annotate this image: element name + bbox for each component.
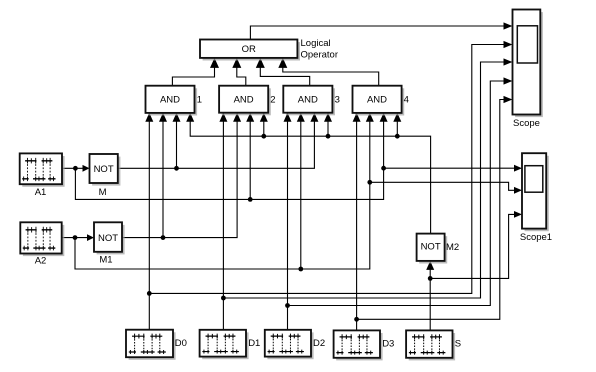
wire AND4 output to OR input 4 <box>283 67 379 86</box>
wire M2 branch to AND3 input 4 <box>327 122 329 137</box>
source block D0 pulse generator <box>126 330 176 360</box>
svg-text:NOT: NOT <box>98 233 118 244</box>
wire D0 to AND1 input 1 <box>148 122 150 330</box>
wire A1 branch to Scope1 input 1 <box>384 167 514 169</box>
wire D1 to AND2 input 1 <box>222 122 224 330</box>
svg-text:M: M <box>99 187 107 198</box>
svg-text:D2: D2 <box>313 338 325 349</box>
svg-text:D1: D1 <box>248 338 260 349</box>
wire AND3 output to OR input 3 <box>260 67 309 86</box>
node D3 branch junction <box>354 317 359 322</box>
source block D2 pulse generator <box>265 330 314 359</box>
wire M2 branch to AND4 input 4 <box>396 122 398 137</box>
sink Scope <box>513 10 543 118</box>
wire D2 to AND3 input 1 <box>287 122 289 330</box>
node M1 to AND1 junction <box>161 235 166 240</box>
svg-text:4: 4 <box>404 95 409 106</box>
node A2 riser junction <box>367 180 372 185</box>
node A1 riser junction <box>381 166 386 171</box>
svg-text:3: 3 <box>335 95 340 106</box>
node D1 branch junction <box>221 296 226 301</box>
svg-text:D0: D0 <box>175 338 187 349</box>
wire M1 branch to AND1 input 2 <box>162 122 164 238</box>
svg-text:AND: AND <box>234 95 254 106</box>
svg-text:M1: M1 <box>99 254 112 265</box>
wire D2 branch to Scope input 4 <box>288 81 505 306</box>
node S branch junction <box>428 276 433 281</box>
svg-text:NOT: NOT <box>94 164 114 175</box>
gate AND3 <box>283 86 335 116</box>
op NOT gate M <box>90 154 121 186</box>
op NOT gate M1 <box>94 222 125 254</box>
svg-text:S: S <box>455 339 461 350</box>
node D2 branch junction <box>285 303 290 308</box>
node A2 branch junction <box>73 235 78 240</box>
node M2 to AND4 junction <box>395 134 400 139</box>
wire NOT M output to AND3 input 3 <box>118 122 315 169</box>
wire D3 branch to Scope input 5 <box>357 100 505 320</box>
node A1 branch junction <box>73 166 78 171</box>
source block A2 pulse generator <box>20 222 64 256</box>
svg-text:A1: A1 <box>35 187 47 198</box>
svg-text:D3: D3 <box>382 339 394 350</box>
wire M branch to AND1 input 3 <box>176 122 178 169</box>
svg-text:A2: A2 <box>35 255 47 266</box>
gate AND1 <box>146 86 198 116</box>
wire S branch to Scope1 input 3 <box>430 214 514 278</box>
wire A2 branch to Scope1 input 2 <box>370 182 514 190</box>
wire A2 to NOT M1 input <box>62 237 88 239</box>
svg-text:M2: M2 <box>446 242 459 253</box>
svg-text:1: 1 <box>197 95 202 106</box>
svg-text:2: 2 <box>270 95 275 106</box>
sink Scope1 <box>522 153 549 231</box>
svg-text:AND: AND <box>160 95 180 106</box>
gate AND4 <box>353 86 405 116</box>
svg-text:OR: OR <box>242 44 256 55</box>
wire A2 branch to AND4 input 2 <box>75 122 370 270</box>
svg-text:Operator: Operator <box>301 49 339 60</box>
wire S to NOT M2 input <box>429 270 431 331</box>
wire A1 to NOT M input <box>62 167 83 169</box>
source block A1 pulse generator <box>20 153 65 186</box>
op OR gate U-OR Logical Operator <box>200 40 300 61</box>
wire A2 branch to AND3 input 2 <box>300 122 302 270</box>
svg-text:AND: AND <box>298 95 318 106</box>
node M to AND1 junction <box>174 166 179 171</box>
op NOT gate M2 <box>417 234 448 264</box>
source block D1 pulse generator <box>200 330 249 359</box>
wire A1 branch to AND4 input 3 <box>75 122 383 200</box>
node M2 to AND3 junction <box>326 134 331 139</box>
wire M2 branch to AND2 input 4 <box>263 122 265 137</box>
wire AND1 output to OR input 1 <box>172 67 214 86</box>
node A2 to AND3 junction <box>298 267 303 272</box>
node A1 to AND2 junction <box>248 197 253 202</box>
wire NOT M2 output to AND1 input 4 <box>190 122 430 234</box>
svg-text:Logical: Logical <box>301 38 331 49</box>
source block S pulse generator <box>406 330 455 360</box>
svg-text:Scope1: Scope1 <box>520 232 552 243</box>
wire A1 branch to AND2 input 3 <box>249 122 251 200</box>
svg-text:AND: AND <box>367 95 387 106</box>
gate AND2 <box>219 86 271 116</box>
wire D3 to AND4 input 1 <box>356 122 358 331</box>
svg-text:NOT: NOT <box>421 242 441 253</box>
source block D3 pulse generator <box>334 330 383 360</box>
node D0 branch junction <box>147 291 152 296</box>
wire AND2 output to OR input 2 <box>237 67 246 86</box>
wire D0 branch to Scope input 2 <box>149 45 504 294</box>
wire OR output to Scope input 1 <box>250 26 504 40</box>
svg-text:Scope: Scope <box>513 118 540 129</box>
wire NOT M1 output to AND2 input 2 <box>122 122 237 238</box>
node M2 to AND2 junction <box>261 134 266 139</box>
wire D1 branch to Scope input 3 <box>223 62 504 298</box>
